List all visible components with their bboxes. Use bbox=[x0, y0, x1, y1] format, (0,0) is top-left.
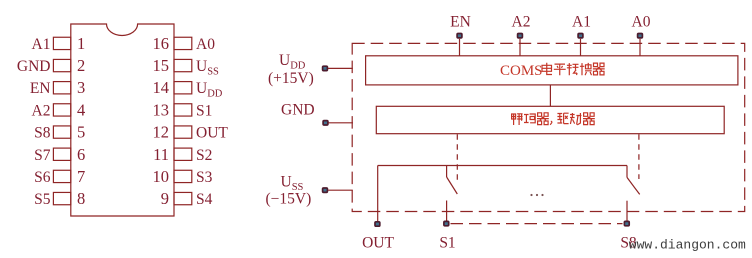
analog switch for S8: stub, open blade, dashed control from decoder, output wire bbox=[627, 134, 640, 221]
svg-text:S2: S2 bbox=[196, 147, 212, 164]
svg-text:3: 3 bbox=[77, 78, 85, 97]
pin 8 of U1: pad box, pin number 8, signal label S5 bbox=[34, 189, 85, 208]
pin 14 of U1: pad box, pin number 14, signal label UDD bbox=[153, 78, 223, 100]
supply UDD (+15V): label, terminal node, wire to enclosure bbox=[268, 52, 353, 87]
svg-text:A2: A2 bbox=[512, 14, 531, 31]
svg-text:S1: S1 bbox=[196, 102, 212, 119]
svg-text:10: 10 bbox=[153, 167, 170, 186]
svg-text:UDD: UDD bbox=[196, 80, 223, 100]
block U1a: CMOS level converter (COMS电平转换器) bbox=[366, 56, 738, 85]
pin 9 of U1: pad box, pin number 9, signal label S4 bbox=[161, 189, 213, 208]
svg-text:EN: EN bbox=[30, 80, 51, 97]
svg-text:S3: S3 bbox=[196, 169, 213, 186]
S1 terminal node bbox=[444, 221, 449, 225]
pin 13 of U1: pad box, pin number 13, signal label S1 bbox=[153, 100, 213, 119]
svg-text:14: 14 bbox=[153, 78, 170, 97]
svg-text:5: 5 bbox=[77, 123, 85, 142]
svg-text:12: 12 bbox=[153, 123, 170, 142]
supply USS (-15V): label, terminal node, wire to enclosure bbox=[266, 173, 353, 207]
svg-text:USS: USS bbox=[196, 58, 219, 78]
input A0: label, terminal node, wire into level converter bbox=[632, 14, 651, 56]
svg-text:OUT: OUT bbox=[196, 125, 228, 142]
svg-text:S4: S4 bbox=[196, 191, 213, 208]
dashed functional-diagram enclosure of U1 bbox=[352, 43, 745, 211]
svg-text:S7: S7 bbox=[34, 147, 51, 164]
svg-text:A1: A1 bbox=[32, 36, 51, 53]
svg-text:7: 7 bbox=[77, 167, 85, 186]
ellipsis: omitted switches S2..S7 bbox=[530, 194, 543, 196]
svg-text:S1: S1 bbox=[439, 235, 455, 252]
wire: level-converter output to decoder input bbox=[549, 85, 551, 106]
svg-text:13: 13 bbox=[153, 100, 170, 119]
svg-text:EN: EN bbox=[450, 14, 471, 31]
input A2: label, terminal node, wire into level converter bbox=[512, 14, 531, 56]
svg-text:9: 9 bbox=[161, 189, 169, 208]
svg-text:S8: S8 bbox=[34, 125, 51, 142]
svg-text:UDD: UDD bbox=[279, 52, 306, 72]
pin 6 of U1: pad box, pin number 6, signal label S7 bbox=[34, 145, 85, 164]
pin 3 of U1: pad box, pin number 3, signal label EN bbox=[30, 78, 85, 97]
svg-text:8: 8 bbox=[77, 189, 85, 208]
svg-text:COMS: COMS bbox=[500, 63, 543, 79]
label (Chinese) 解码器, 驱动器 = "decoder, driver" bbox=[512, 113, 595, 125]
svg-text:OUT: OUT bbox=[362, 235, 394, 252]
pin 2 of U1: pad box, pin number 2, signal label GND bbox=[17, 56, 85, 75]
svg-text:GND: GND bbox=[17, 58, 51, 75]
pin 11 of U1: pad box, pin number 11, signal label S2 bbox=[153, 145, 212, 164]
pin 16 of U1: pad box, pin number 16, signal label A0 bbox=[153, 34, 216, 53]
svg-text:16: 16 bbox=[153, 34, 170, 53]
svg-text:S6: S6 bbox=[34, 169, 51, 186]
pin 5 of U1: pad box, pin number 5, signal label S8 bbox=[34, 123, 85, 142]
label (Chinese) 电平转换器 = "level converter" bbox=[542, 63, 605, 75]
GND: label, terminal node, wire to enclosure bbox=[281, 101, 353, 125]
pin 1 of U1: pad box, pin number 1, signal label A1 bbox=[32, 34, 86, 53]
pin 15 of U1: pad box, pin number 15, signal label USS bbox=[153, 56, 220, 78]
dashed link between S1 and S8 terminals (omitted channels) bbox=[451, 223, 623, 225]
svg-text:15: 15 bbox=[153, 56, 170, 75]
S8 terminal node bbox=[624, 221, 629, 225]
pin 10 of U1: pad box, pin number 10, signal label S3 bbox=[153, 167, 213, 186]
svg-text:A0: A0 bbox=[632, 14, 651, 31]
svg-text:www.diangon.com: www.diangon.com bbox=[629, 238, 746, 253]
wire: OUT drop to terminal bbox=[377, 166, 379, 222]
svg-text:11: 11 bbox=[153, 145, 169, 164]
wire: common output bus from switches to OUT bbox=[378, 165, 627, 167]
svg-text:(−15V): (−15V) bbox=[266, 191, 312, 208]
analog switch for S1: stub, open blade, dashed control from decoder, output wire bbox=[447, 134, 458, 221]
svg-text:A0: A0 bbox=[196, 36, 215, 53]
pin 4 of U1: pad box, pin number 4, signal label A2 bbox=[32, 100, 86, 119]
svg-text:1: 1 bbox=[77, 34, 85, 53]
svg-text:6: 6 bbox=[77, 145, 85, 164]
OUT terminal node bbox=[375, 222, 380, 226]
block U1b: decoder / driver (解码器, 驱动器) bbox=[376, 106, 724, 133]
svg-text:A2: A2 bbox=[32, 102, 51, 119]
svg-text:(+15V): (+15V) bbox=[268, 70, 314, 87]
input A1: label, terminal node, wire into level converter bbox=[572, 14, 591, 56]
IC U1 (CD4051-style DIP-16) package body with pin-1 notch bbox=[71, 24, 174, 216]
pin 7 of U1: pad box, pin number 7, signal label S6 bbox=[34, 167, 85, 186]
pin 12 of U1: pad box, pin number 12, signal label OUT bbox=[153, 123, 229, 142]
svg-text:4: 4 bbox=[77, 100, 85, 119]
svg-text:GND: GND bbox=[281, 101, 315, 118]
svg-text:S5: S5 bbox=[34, 191, 51, 208]
input EN: label, terminal node, wire into level converter bbox=[450, 14, 471, 56]
svg-text:A1: A1 bbox=[572, 14, 591, 31]
svg-text:2: 2 bbox=[77, 56, 85, 75]
